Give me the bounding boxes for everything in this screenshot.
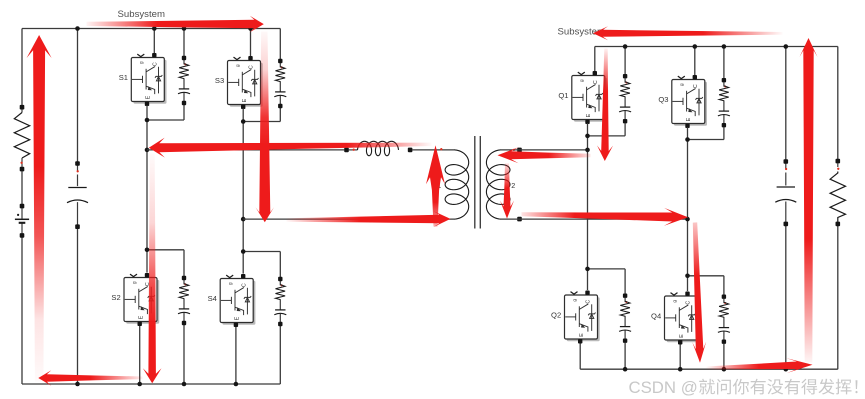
DC voltage source V1 (battery) [21,208,23,233]
svg-text:S4: S4 [208,294,217,303]
annotation arrow: down through Q1 [0,0,1,1]
node D (right leg2 midpoint) [685,217,690,222]
svg-text:CSDN @: CSDN @ [629,378,698,397]
transistor Q4 (IGBT/Diode) [665,292,700,345]
wire secondary bottom to Q leg2 [500,218,687,220]
wire bottom bus right (DC- rail) [580,368,838,370]
wire Q4 emitter to bottom bus [679,345,681,370]
wire input filter capacitor column [77,29,79,385]
junction top bus / filter cap [75,26,80,31]
annotation arrow: to right Subsystem label (leftward) [0,0,1,1]
svg-text:Q3: Q3 [658,95,668,104]
secondary port bottom [517,217,522,222]
junction bottom bus / S2 emitter [137,382,142,387]
resistor R_in (source series) [21,109,23,112]
RC snubber of S4 [274,277,286,326]
capacitor C_out (output filter) [785,164,787,222]
wire top bus right (DC+ rail) [595,46,838,48]
junction S1 emitter / snubber [145,118,150,123]
annotation arrow: down Q4 leg [0,0,1,1]
annotation arrow: into secondary top (leftward) [0,0,1,1]
wire Q3 collector stub [694,47,696,76]
junction top bus / Q1 snubber [623,44,628,49]
annotation arrow: current along left top bus (rightward) [0,0,1,1]
annotation arrow: down secondary winding [0,0,1,1]
wire inductor to transformer primary [412,149,455,151]
junction Q4 collector / snubber [685,274,690,279]
junction Q1 emitter / snubber [585,134,590,139]
RC snubber of Q3 [718,78,730,127]
wire Q3 emitter to Q4 collector (leg 2) [687,127,689,291]
wire S4 emitter to bottom bus [235,327,237,384]
svg-text:Q2: Q2 [551,310,561,319]
wire S3 snubber branch [243,29,280,122]
wire Q1 snubber branch [588,47,626,136]
transformer core [475,136,481,229]
transistor S1 (IGBT/Diode) [131,53,166,106]
junction Q2 collector / snubber [585,267,590,272]
annotation arrow: secondary bottom to node D (rightward) [0,0,1,1]
svg-text:Q1: Q1 [558,91,568,100]
svg-text:Q4: Q4 [651,311,661,320]
node A (leg1 midpoint) [145,148,150,153]
wire output capacitor column [785,47,787,370]
annotation arrow: into primary bottom (rightward) [0,0,1,1]
junction top bus / Q3 snubber [722,44,727,49]
transformer primary winding 1 [445,150,469,219]
wire Q2 emitter to bottom bus [579,344,581,370]
svg-text:2: 2 [511,181,515,190]
annotation arrow: along bottom bus to left [0,0,1,1]
resistor R_load [837,163,839,167]
junction bottom bus / filter cap [75,382,80,387]
wire top bus left (DC+ rail) [22,28,280,30]
junction S2 collector / snubber [145,248,150,253]
annotation arrow: up right load branch [0,0,1,1]
wire S1 snubber branch [147,29,184,121]
junction S3 emitter / snubber [241,119,246,124]
transistor Q3 (IGBT/Diode) [672,75,707,128]
junction S4 collector / snubber [241,249,246,254]
junction top bus / Q3 collector [693,44,698,49]
capacitor C_in (input filter) [77,166,79,225]
transistor Q1 (IGBT/Diode) [572,71,607,124]
wire Q2 snubber branch [588,269,626,369]
annotation arrow: into node A (leftward) [0,0,1,1]
wire node B to transformer primary bottom [243,218,455,220]
RC snubber of Q4 [718,295,730,344]
junction top bus / S1 collector [152,26,157,31]
wire S2 snubber branch [147,250,184,384]
wire load resistor column [837,47,839,370]
svg-text:S1: S1 [119,73,128,82]
RC snubber of Q2 [619,294,631,343]
wire node A to inductor [147,149,344,151]
transformer secondary winding 2 [486,150,510,219]
node C (right leg1 midpoint) [585,148,590,153]
wire S3 collector stub [250,29,252,57]
RC snubber of S3 [274,59,286,108]
RC snubber of S1 [178,56,190,105]
annotation arrow: down S3 leg to node B [0,0,1,1]
junction bottom bus / Q4 emitter [678,367,683,372]
wire S4 snubber branch [243,252,280,385]
wire Q1 emitter to Q2 collector (leg 1) [587,123,589,290]
inductor L1 [349,149,358,151]
junction Q3 emitter / snubber [685,137,690,142]
wire Q4 snubber branch [688,276,724,369]
port dot primary [440,148,442,150]
annotation arrow: current up left source branch [0,0,1,1]
wire Q1 collector stub [594,47,596,72]
node B (leg2 midpoint) [241,217,246,222]
RC snubber of Q1 [619,74,631,123]
wire S1 collector stub [153,29,155,54]
transistor S4 (IGBT/Diode) [220,274,255,327]
junction top bus / S1 snubber [182,26,187,31]
wire left source column [21,29,23,385]
wire S1 emitter to S2 collector (leg 1) [146,105,148,272]
RC snubber of S2 [178,276,190,325]
wire bottom bus left (DC- rail) [22,383,280,385]
annotation arrow: down S2 leg [0,0,1,1]
junction bottom bus / Q2 snubber [623,367,628,372]
annotation arrow: up primary winding [0,0,1,1]
wire S2 emitter to bottom bus [139,326,141,384]
wire Q3 snubber branch [688,47,724,140]
wire S3 emitter to S4 collector (leg 2) [242,108,244,273]
junction bottom bus / S2 snubber [182,382,187,387]
transistor S3 (IGBT/Diode) [228,56,263,109]
junction top bus / S3 collector [248,26,253,31]
junction bottom bus / Q4 snubber [722,367,727,372]
junction bottom bus / output cap [784,367,789,372]
svg-text:S2: S2 [111,293,120,302]
svg-text:Subsystem: Subsystem [118,9,165,20]
transistor Q2 (IGBT/Diode) [565,291,600,344]
junction top bus / output cap [784,44,789,49]
secondary port top [513,149,515,151]
svg-text:S3: S3 [215,76,224,85]
annotation arrow: along right bottom bus (rightward) [0,0,1,1]
transistor S2 (IGBT/Diode) [124,273,159,326]
junction bottom bus / S4 emitter [234,382,239,387]
wire secondary top to Q leg1 [500,149,587,151]
